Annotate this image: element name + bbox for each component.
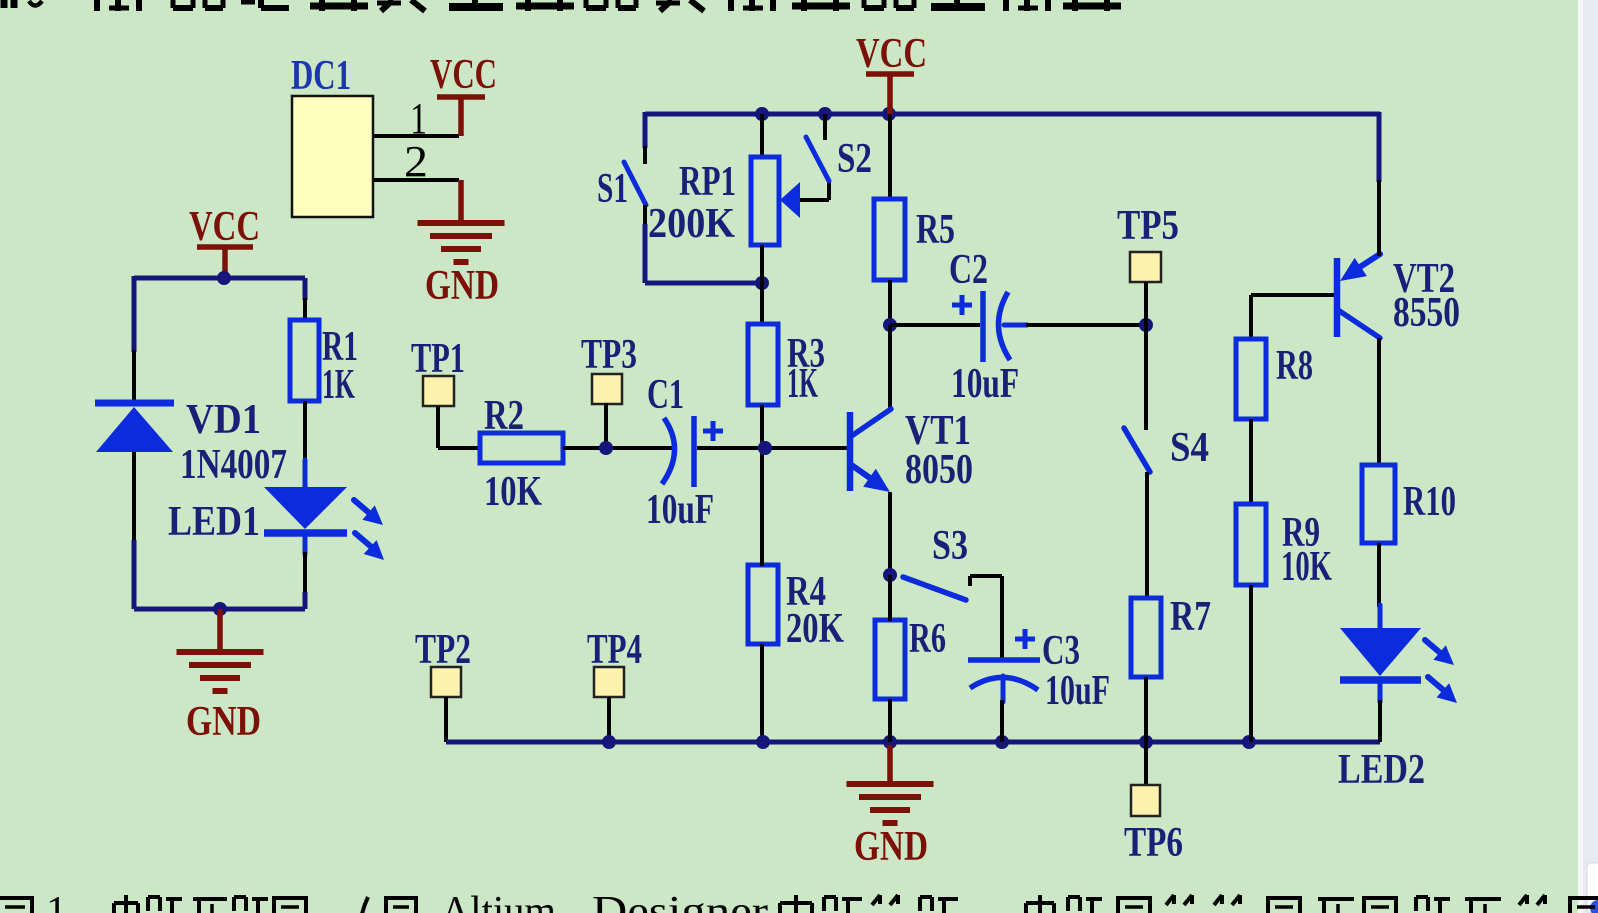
svg-text:C1: C1: [647, 372, 684, 418]
svg-text:20K: 20K: [786, 606, 844, 652]
svg-text:10K: 10K: [484, 469, 542, 515]
svg-text:TP5: TP5: [1117, 203, 1179, 249]
svg-text:VD1: VD1: [186, 397, 261, 443]
svg-text:Designer: Designer: [592, 889, 768, 913]
svg-text:LED1: LED1: [168, 499, 260, 545]
svg-text:S4: S4: [1170, 425, 1209, 471]
svg-text:VCC: VCC: [189, 204, 260, 250]
svg-text:R6: R6: [909, 616, 946, 662]
svg-text:10uF: 10uF: [1045, 668, 1110, 714]
svg-text:RP1: RP1: [679, 159, 736, 205]
svg-text:R8: R8: [1276, 343, 1313, 389]
svg-text:LED2: LED2: [1338, 747, 1425, 793]
svg-text:2: 2: [404, 137, 428, 186]
svg-text:C2: C2: [949, 247, 988, 293]
svg-text:GND: GND: [186, 699, 261, 745]
svg-text:R10: R10: [1403, 479, 1456, 525]
svg-text:1K: 1K: [787, 361, 818, 407]
svg-text:10uF: 10uF: [646, 487, 714, 533]
svg-text:S3: S3: [932, 523, 968, 569]
svg-text:S2: S2: [837, 136, 872, 182]
svg-text:1N4007: 1N4007: [180, 442, 287, 488]
svg-text:TP6: TP6: [1124, 820, 1183, 866]
svg-text:R2: R2: [484, 393, 524, 439]
svg-text:8050: 8050: [905, 447, 973, 493]
svg-text:1: 1: [410, 94, 427, 143]
svg-text:GND: GND: [854, 824, 928, 870]
svg-text:1: 1: [46, 889, 67, 913]
svg-text:200K: 200K: [648, 201, 735, 247]
svg-text:10uF: 10uF: [951, 361, 1019, 407]
svg-text:TP3: TP3: [581, 332, 637, 378]
svg-text:GND: GND: [425, 263, 499, 309]
svg-text:R7: R7: [1170, 594, 1211, 640]
svg-text:VCC: VCC: [430, 52, 497, 98]
svg-text:S1: S1: [597, 166, 628, 212]
svg-text:DC1: DC1: [291, 53, 351, 99]
svg-text:10K: 10K: [1281, 544, 1332, 590]
svg-text:8550: 8550: [1393, 290, 1460, 336]
svg-text:Altium: Altium: [441, 889, 556, 913]
svg-text:VCC: VCC: [856, 31, 927, 77]
svg-text:1K: 1K: [322, 362, 355, 408]
